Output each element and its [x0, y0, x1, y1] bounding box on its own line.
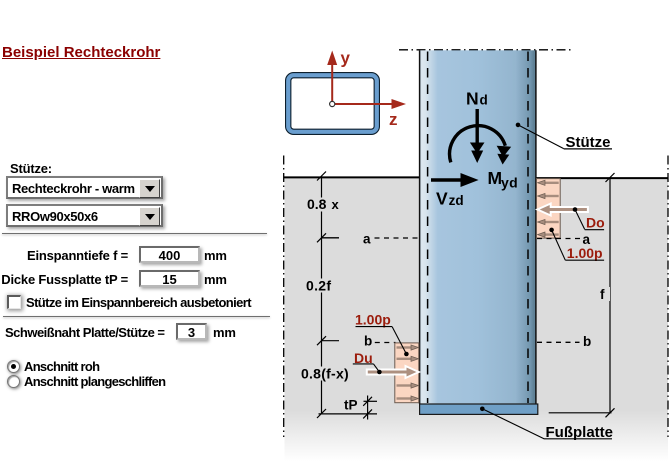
svg-text:1.00p: 1.00p: [355, 311, 391, 327]
concrete foundation: [285, 178, 669, 461]
force Nd arrow: [470, 109, 485, 163]
Do leader dot: [573, 207, 578, 212]
dim label 0.8(f-x): [300, 366, 352, 382]
pressure block right (on column, upper): [537, 179, 561, 239]
1.00p right leader line: [552, 230, 566, 260]
cross-section tube: [288, 75, 377, 132]
axis z: [332, 99, 406, 129]
Fussplatte leader dot: [480, 407, 485, 412]
tick level b: [317, 336, 326, 345]
level b left: dashed segment: [375, 342, 396, 344]
level b right: dashed segment: [537, 341, 580, 343]
resultant Do arrow: [537, 204, 588, 216]
1.00p left leader dot: [404, 352, 409, 357]
centerline top (dash-dot): [399, 49, 571, 51]
moment Myd label: [488, 168, 519, 190]
combo box profile type: Rechteckrohr - warm: [6, 176, 163, 199]
column (Stuetze) body: [419, 50, 537, 404]
Do leader line: [575, 210, 585, 230]
input f = 400: [139, 246, 200, 263]
title Beispiel Rechteckrohr: [2, 44, 160, 61]
dim label 0.8x: [305, 196, 343, 212]
svg-text:tP: tP: [344, 398, 358, 413]
Fussplatte label: [544, 424, 613, 441]
Du leader line: [374, 364, 380, 372]
tick ground: [317, 172, 326, 181]
base plate (Fussplatte): [420, 404, 538, 414]
svg-text:z: z: [389, 110, 398, 129]
axis y: [327, 49, 350, 105]
svg-text:M: M: [488, 168, 503, 188]
1.00p right label: [565, 245, 604, 261]
Stuetze leader dot: [516, 123, 521, 128]
tick plate bottom: [317, 409, 326, 418]
force Nd label: [466, 89, 488, 109]
Fussplatte leader line: [482, 409, 544, 439]
unit mm: [213, 325, 236, 340]
svg-text:0.8(f-x): 0.8(f-x): [301, 366, 349, 382]
level a right: dashed segment: [537, 238, 580, 240]
label Stuetze:: [10, 161, 52, 176]
label Dicke Fussplatte tP =: [0, 272, 128, 287]
Stuetze label: [564, 134, 612, 151]
moment Myd arc: [450, 126, 512, 165]
column dashed inner line left: [427, 52, 429, 404]
1.00p left leader line: [392, 327, 406, 354]
centerline right (dash-dot): [667, 156, 669, 438]
separator line 2: [3, 316, 270, 317]
ground line left: [284, 176, 419, 178]
column dashed inner line right: [527, 52, 529, 404]
unit mm: [204, 248, 227, 263]
dimension f line right: [549, 173, 615, 417]
svg-text:yd: yd: [501, 174, 518, 190]
dimension main line left: [321, 176, 323, 414]
svg-text:zd: zd: [449, 193, 464, 208]
radio Anschnitt roh (selected): [7, 360, 20, 373]
force Vzd arrow: [431, 173, 479, 187]
Du leader dot: [377, 370, 382, 375]
resultant Du arrow: [367, 366, 419, 378]
svg-text:b: b: [364, 334, 372, 349]
Stuetze leader line: [518, 125, 564, 149]
1.00p left label: [355, 311, 392, 327]
level b left: extension segment: [322, 340, 340, 342]
label Einspanntiefe f =: [0, 248, 128, 263]
centerline left (dash-dot): [283, 156, 285, 438]
small pressure arrows left block: [397, 345, 419, 401]
svg-text:d: d: [480, 93, 488, 108]
pressure block left (on column, lower): [395, 343, 419, 403]
svg-text:x: x: [332, 197, 340, 212]
level a left: solid segment: [322, 237, 340, 239]
input tP = 15: [139, 270, 200, 287]
radio Anschnitt plangeschliffen: [7, 375, 20, 388]
origin node: [330, 101, 335, 106]
svg-text:V: V: [436, 188, 448, 208]
tick level a: [317, 233, 326, 242]
input weld = 3: [176, 323, 207, 340]
svg-text:Do: Do: [586, 215, 605, 231]
svg-text:0.2f: 0.2f: [306, 278, 331, 294]
svg-text:a: a: [363, 232, 371, 247]
svg-text:1.00p: 1.00p: [567, 245, 603, 261]
svg-text:f: f: [600, 287, 605, 302]
level a left: dashed segment: [375, 237, 420, 239]
force Vzd label: [436, 188, 464, 208]
label Schweissnaht Platte/Stuetze =: [5, 325, 165, 340]
Do label: [585, 215, 605, 231]
svg-text:0.8: 0.8: [307, 196, 327, 212]
Du label: [353, 350, 374, 366]
svg-text:b: b: [583, 334, 591, 349]
unit mm: [204, 272, 227, 287]
1.00p right leader dot: [549, 228, 554, 233]
checkbox Stuetze im Einspannbereich ausbetoniert: [7, 295, 21, 309]
svg-text:N: N: [466, 89, 479, 109]
ground line right: [537, 177, 668, 179]
svg-text:y: y: [341, 49, 351, 68]
small pressure arrows right block: [538, 180, 559, 237]
combo box profile size: RROw90x50x6: [6, 204, 163, 227]
tP dimension: [319, 396, 378, 420]
dim label 0.2f: [304, 278, 337, 294]
separator line 1: [2, 233, 267, 234]
